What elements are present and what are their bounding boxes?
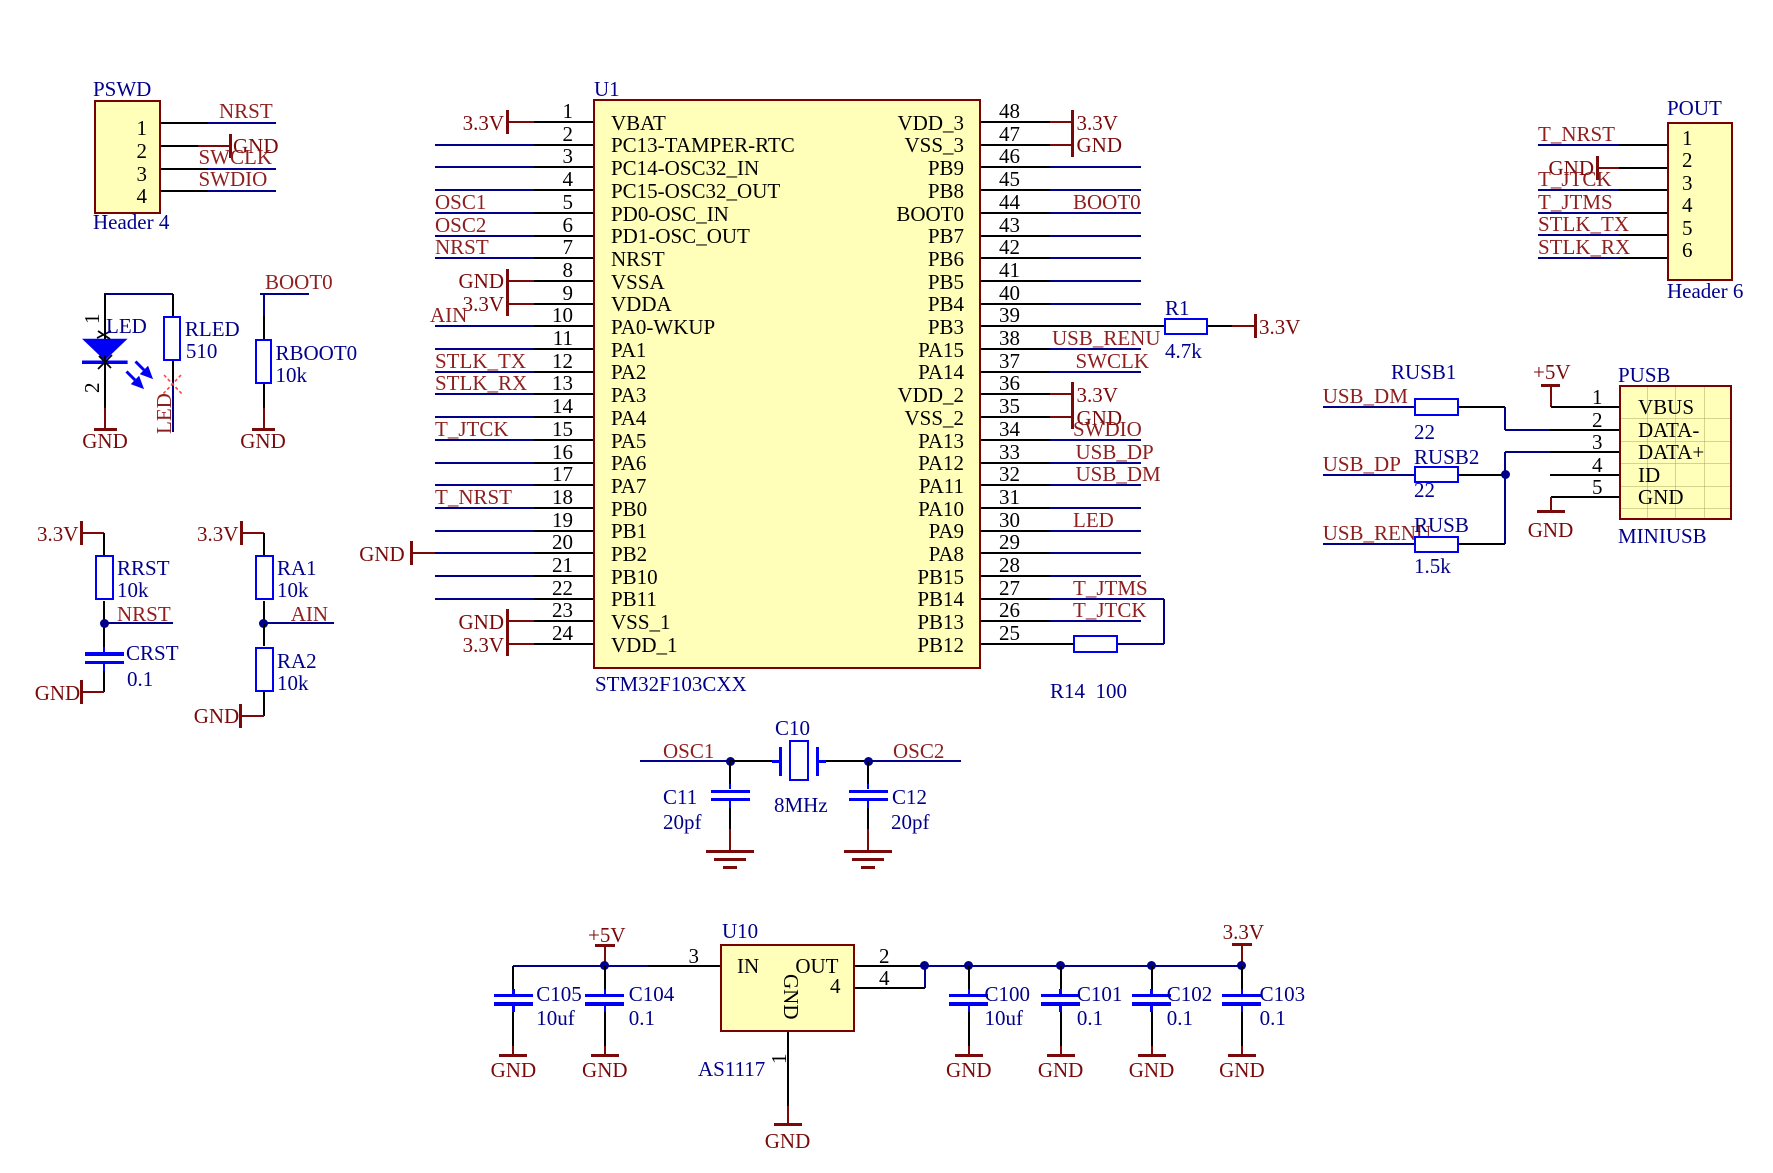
U1 pin 32 PA11 (999, 464, 1020, 484)
power port GND at U1 pin 35 (1071, 405, 1074, 429)
power port GND (CRST) (35, 683, 81, 703)
resistor RBOOT0 10k (263, 294, 265, 316)
resistor RUSB 1.5k (1414, 536, 1459, 554)
U1 pin 30 PA9 (999, 510, 1020, 530)
LED cathode wire to GND (104, 364, 106, 408)
wire U1 pin 42 (1050, 257, 1141, 259)
U1 pin 18 PB0 (552, 487, 573, 507)
U10 pin 1 GND wire (769, 1054, 789, 1065)
wire U1 pin 38 (1050, 348, 1141, 350)
POUT pin 4 wire (1619, 212, 1667, 214)
power port +5V above C104 (588, 925, 626, 945)
PSWD pin 3 wire / net SWCLK (161, 168, 208, 170)
PUSB pin 1 wire (1551, 406, 1620, 408)
net label USB_RENU (1052, 328, 1161, 348)
net label STLK_TX (435, 351, 526, 371)
net label SWCLK (1076, 351, 1150, 371)
power port +5V above PUSB pin 1 (1533, 362, 1571, 382)
ground symbol under C11 (706, 850, 754, 853)
power port 3.3V (RRST) (37, 524, 78, 544)
wire U1 pin 2 (435, 144, 534, 146)
wire RRST to node NRST (103, 601, 105, 647)
U1 pin 3 PC14-OSC32_IN (563, 146, 574, 166)
wire U1 pin 46 (1050, 166, 1141, 168)
power port GND at POUT pin 2 (1549, 158, 1595, 178)
wire U1 pin 6 (435, 235, 534, 237)
U1 pin 17 PA7 (552, 464, 573, 484)
capacitor C11 20pf (729, 761, 731, 784)
wire U10 pin 2 OUT (855, 965, 925, 967)
wire RA2 to GND (263, 692, 265, 716)
U1 pin 27 PB14 (999, 578, 1020, 598)
power port 3.3V at U1 pin 24 (506, 632, 509, 656)
U1 pin 29 PA8 (999, 532, 1020, 552)
U1 pin 11 PA1 (553, 328, 573, 348)
U1 pin 14 PA4 (552, 396, 573, 416)
POUT pin 2 wire (1619, 167, 1667, 169)
wire U1 pin 37 (1050, 371, 1141, 373)
net label OSC1 (435, 192, 486, 212)
net label STLK_RX (435, 373, 527, 393)
power port 3.3V at U1 pin 9 (506, 292, 509, 316)
U1 pin 34 PA13 (999, 419, 1020, 439)
wire U1 pin 3 (435, 166, 534, 168)
power port 3.3V (RA1) (197, 524, 238, 544)
wire U1 pin 15 (435, 439, 534, 441)
wire CRST to GND (103, 671, 105, 692)
wire U1 pin 44 (1050, 212, 1141, 214)
wire U1 pin 21 (435, 575, 534, 577)
power port GND under RBOOT0 (252, 428, 275, 431)
wire RUSB to node (1459, 543, 1505, 545)
capacitor C104 0.1 (604, 966, 606, 989)
U1 pin 45 PB8 (999, 169, 1020, 189)
power port GND under LED (94, 428, 117, 431)
power port GND under C103 (1228, 1054, 1256, 1057)
capacitor C101 0.1 (1056, 961, 1065, 970)
U1 pin 13 PA3 (552, 373, 573, 393)
U1 pin 43 PB7 (999, 215, 1020, 235)
power port GND at U1 pin 23 (506, 609, 509, 633)
U1 pin 16 PA6 (552, 442, 573, 462)
power port GND under C101 (1047, 1054, 1075, 1057)
power port GND under U10 (774, 1123, 802, 1126)
power port 3.3V right end (1223, 922, 1264, 942)
power port GND under C105 (499, 1054, 527, 1057)
wire U1 pin 33 (1050, 462, 1141, 464)
net NRST wire (104, 622, 173, 624)
wire U1 pin 14 (435, 416, 534, 418)
U1 pin 47 VSS_3 (999, 124, 1020, 144)
U1 pin 8 VSSA (563, 260, 574, 280)
capacitor C12 20pf (867, 761, 869, 784)
resistor RUSB1 22 (1414, 398, 1459, 416)
capacitor CRST 0.1 (103, 647, 106, 652)
U1 pin 41 PB5 (999, 260, 1020, 280)
wire U1 pin 45 (1050, 189, 1141, 191)
U1 pin 9 VDDA (563, 283, 574, 303)
PUSB pin 5 wire (1551, 496, 1620, 498)
PUSB pin 2 wire (1550, 429, 1620, 431)
U1 pin 46 PB9 (999, 146, 1020, 166)
power port GND under C104 (591, 1054, 619, 1057)
POUT pin 1 wire (1619, 144, 1667, 146)
resistor RLED 510 (172, 294, 174, 317)
connector PUSB MINIUSB body (1619, 385, 1732, 520)
power port GND at U1 pin 8 (506, 269, 509, 293)
wire U1 pin 12 (435, 371, 534, 373)
node junction OUT (920, 961, 929, 970)
crystal C10 8MHz (730, 760, 772, 762)
node junction RUSB2 (1501, 470, 1510, 479)
PSWD pin 2 wire / power GND (161, 145, 198, 147)
net USB_DP wire (1323, 474, 1414, 476)
wire U1 pin 29 (1050, 552, 1141, 554)
wire U1 pin 5 (435, 212, 534, 214)
wire RUSB1 to DATA- (1459, 406, 1505, 408)
net label STLK_TX (1538, 214, 1629, 234)
wire U1 pin 30 (1050, 530, 1141, 532)
U1 pin 48 VDD_3 (999, 101, 1020, 121)
wire R1 to 3.3V (1208, 325, 1232, 327)
net label AIN (430, 305, 467, 325)
power port 3.3V right of R1 (1254, 314, 1257, 338)
U1 pin 4 PC15-OSC32_OUT (563, 169, 574, 189)
node junction OSC1 (726, 757, 735, 766)
ground symbol under C12 (844, 850, 892, 853)
U1 pin 1 VBAT (563, 101, 574, 121)
net label STLK_RX (1538, 237, 1630, 257)
node junction +5V/C104 (600, 961, 609, 970)
U1 pin 22 PB11 (552, 578, 573, 598)
node junction OSC2 (864, 757, 873, 766)
net label USB_DP (1076, 442, 1154, 462)
PUSB internal grid (1647, 387, 1648, 518)
capacitor C105 10uf (512, 966, 514, 989)
power rail wire right of U10 (925, 965, 1242, 967)
PUSB pin 3 wire (1550, 451, 1620, 453)
wire U1 pin 27 to R14 loop / net T_JTMS (1050, 598, 1164, 600)
U1 pin 26 PB13 (999, 600, 1020, 620)
power port GND at U1 pin 20 (359, 544, 405, 564)
resistor RRST 10k (103, 533, 105, 555)
power port 3.3V at U1 pin 48 (1071, 110, 1074, 134)
PSWD pin 1 wire / net NRST (161, 122, 208, 124)
U1 pin 21 PB10 (552, 555, 573, 575)
net label BOOT0 (1073, 192, 1141, 212)
U1 pin 23 VSS_1 (552, 600, 573, 620)
capacitor C102 0.1 (1147, 961, 1156, 970)
wire below RLED / net LED (172, 361, 174, 382)
U1 pin 19 PB1 (552, 510, 573, 530)
IC U1 STM32F103CXX body (593, 99, 981, 669)
U1 pin 40 PB4 (999, 283, 1020, 303)
net OSC2 wire (868, 760, 961, 762)
POUT pin 3 wire (1619, 189, 1667, 191)
net label SWDIO (1073, 419, 1142, 439)
net USB_DM wire (1323, 406, 1414, 408)
net label T_JTMS (1538, 192, 1613, 212)
power port 3.3V at U1 pin 36 (1071, 382, 1074, 406)
U1 pin 5 PD0-OSC_IN (563, 192, 574, 212)
resistor RA2 10k (263, 624, 265, 647)
wire U1 pin 19 (435, 530, 534, 532)
U1 pin 24 VDD_1 (552, 623, 573, 643)
net label OSC2 (435, 215, 486, 235)
power port GND at U1 pin 47 (1071, 133, 1074, 157)
LED circuit top wire (104, 293, 174, 295)
PUSB pin 4 wire (1550, 474, 1620, 476)
wire U1 pin 26 (1050, 620, 1141, 622)
wire U1 pin 32 (1050, 484, 1141, 486)
U1 pin 28 PB15 (999, 555, 1020, 575)
wire U1 pin 25 to R14 (981, 643, 1073, 645)
U1 pin 42 PB6 (999, 237, 1020, 257)
wire U1 pin 11 (435, 348, 534, 350)
U1 pin 38 PA15 (999, 328, 1020, 348)
wire U10 pin 3 IN (648, 965, 720, 967)
capacitor C100 10uf (964, 961, 973, 970)
resistor RA1 10k (263, 533, 265, 555)
U1 pin 6 PD1-OSC_OUT (563, 215, 574, 235)
node AIN junction (263, 601, 265, 624)
U1 pin 12 PA2 (552, 351, 573, 371)
capacitor C103 0.1 (1241, 966, 1243, 989)
net label T_JTCK (1073, 600, 1147, 620)
wire U1 pin 13 (435, 393, 534, 395)
wire U1 pin 41 (1050, 280, 1141, 282)
U1 pin 39 PB3 (999, 305, 1020, 325)
U1 pin 31 PA10 (999, 487, 1020, 507)
wire vertical of R14 loop (1163, 599, 1165, 644)
net label BOOT0 wire (265, 272, 333, 292)
U1 pin 33 PA12 (999, 442, 1020, 462)
net label T_JTCK (435, 419, 509, 439)
wire RUSB2 to DATA+ (1459, 474, 1505, 476)
wire U1 pin 43 (1050, 235, 1141, 237)
diode LED (104, 294, 106, 339)
wire U1 pin 16 (435, 462, 534, 464)
PSWD pin 4 wire / net SWDIO (161, 190, 208, 192)
net label T_JTCK (1538, 169, 1612, 189)
power port GND (RA2) (194, 706, 240, 726)
POUT pin 6 wire (1619, 257, 1667, 259)
power rail wire left of U10 (513, 965, 648, 967)
U1 pin 10 PA0-WKUP (552, 305, 573, 325)
wire U10 pin 4 (855, 987, 925, 989)
wire U1 pin 22 (435, 598, 534, 600)
wire RBOOT0 to GND (263, 384, 265, 408)
U1 pin 20 PB2 (552, 532, 573, 552)
POUT pin 5 wire (1619, 234, 1667, 236)
node NRST junction (100, 619, 109, 628)
wire U1 pin 28 (1050, 575, 1141, 577)
U1 pin 15 PA5 (552, 419, 573, 439)
net OSC1 wire (640, 760, 730, 762)
power port GND under PUSB pin 5 (1550, 497, 1552, 510)
power port GND under C102 (1138, 1054, 1166, 1057)
wire U1 pin 18 (435, 507, 534, 509)
net label NRST (435, 237, 489, 257)
IC U10 AS1117 body (720, 944, 855, 1032)
U1 pin 2 PC13-TAMPER-RTC (563, 124, 574, 144)
wire U1 pin 7 (435, 257, 534, 259)
net label T_NRST (1538, 124, 1615, 144)
U1 pin 36 VDD_2 (999, 373, 1020, 393)
net label T_NRST (435, 487, 512, 507)
net USB_RENU wire (1323, 543, 1414, 545)
U1 pin 7 NRST (563, 237, 574, 257)
power port 3.3V at U1 pin 1 (506, 110, 509, 134)
U1 pin 25 PB12 (999, 623, 1020, 643)
U1 pin 44 BOOT0 (999, 192, 1020, 212)
U1 pin 37 PA14 (999, 351, 1020, 371)
resistor R14 100 (1073, 635, 1118, 653)
wire U1 pin 40 (1050, 303, 1141, 305)
connector POUT (Header 6) (1667, 122, 1733, 281)
connector PSWD (Header 4) (94, 100, 161, 214)
wire U1 pin 17 (435, 484, 534, 486)
wire R14 to T_JTMS loop (1118, 643, 1164, 645)
net AIN wire (264, 622, 334, 624)
wire U1 pin 31 (1050, 507, 1141, 509)
U1 pin 35 VSS_2 (999, 396, 1020, 416)
resistor R1 4.7k (1164, 318, 1208, 336)
net label LED (1073, 510, 1114, 530)
net label USB_DM (1076, 464, 1161, 484)
wire U1 pin 34 (1050, 439, 1141, 441)
wire U1 pin 10 (435, 325, 534, 327)
resistor RUSB2 22 (1414, 466, 1459, 484)
wire U1 pin 4 (435, 189, 534, 191)
wire U1 pin 39 to R1 (1050, 325, 1164, 327)
power port GND under C100 (955, 1054, 983, 1057)
